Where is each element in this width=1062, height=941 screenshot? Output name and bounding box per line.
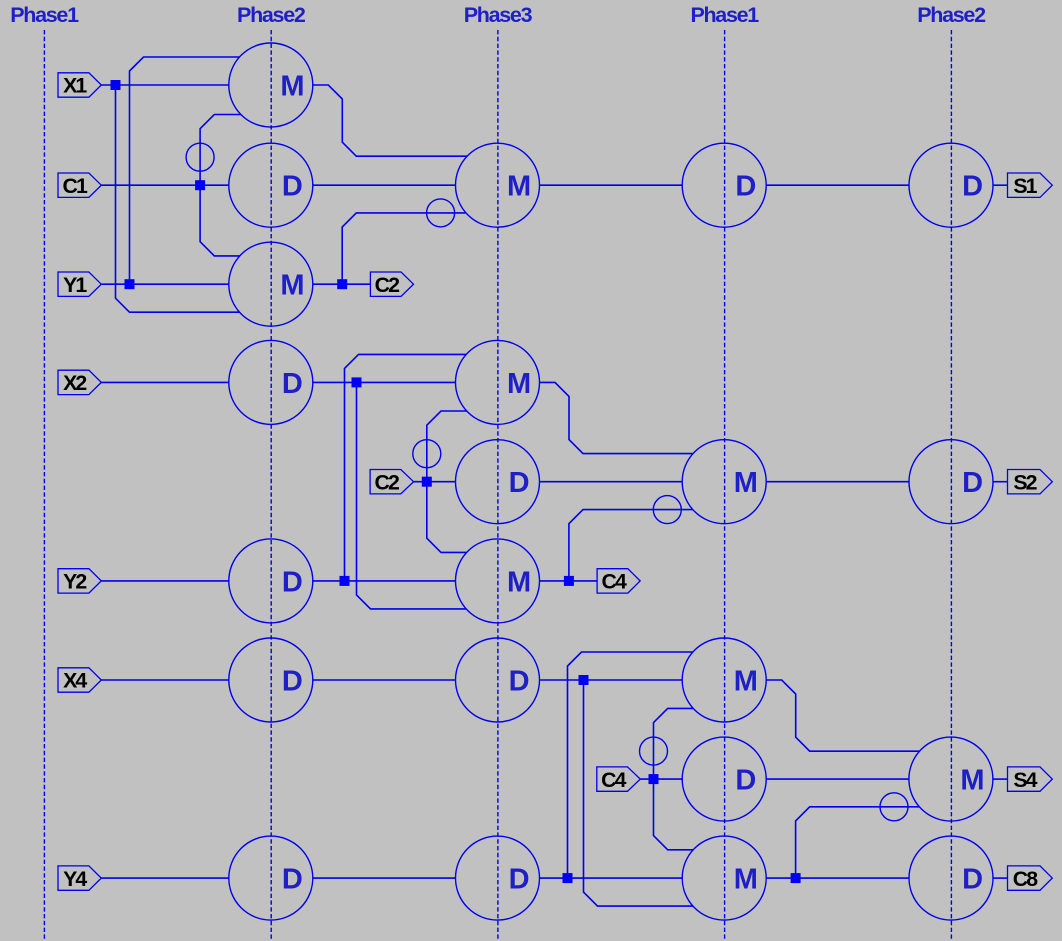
svg-text:D: D	[962, 864, 983, 896]
svg-text:S1: S1	[1013, 174, 1037, 198]
svg-text:Y4: Y4	[63, 867, 87, 891]
svg-text:C4: C4	[601, 768, 626, 792]
svg-text:D: D	[282, 665, 303, 697]
svg-text:D: D	[962, 467, 983, 499]
svg-text:X4: X4	[63, 669, 87, 693]
svg-text:D: D	[962, 171, 983, 203]
svg-text:X1: X1	[63, 74, 87, 98]
svg-text:M: M	[280, 70, 304, 102]
svg-text:C1: C1	[62, 174, 87, 198]
svg-text:C2: C2	[375, 273, 399, 297]
svg-text:M: M	[734, 864, 758, 896]
svg-text:D: D	[509, 467, 530, 499]
svg-text:M: M	[734, 665, 758, 697]
svg-text:M: M	[507, 368, 531, 400]
svg-text:C2: C2	[374, 470, 398, 494]
svg-text:Y2: Y2	[63, 570, 86, 594]
svg-text:M: M	[280, 270, 304, 302]
svg-text:Phase1: Phase1	[10, 3, 79, 27]
svg-text:D: D	[735, 171, 756, 203]
svg-text:D: D	[509, 864, 530, 896]
svg-text:S4: S4	[1013, 768, 1037, 792]
svg-text:D: D	[282, 171, 303, 203]
svg-text:D: D	[282, 566, 303, 598]
svg-text:X2: X2	[63, 371, 86, 395]
svg-text:M: M	[734, 467, 758, 499]
svg-text:C8: C8	[1013, 867, 1038, 891]
svg-text:D: D	[735, 765, 756, 797]
svg-text:Phase2: Phase2	[917, 3, 986, 27]
svg-text:M: M	[960, 765, 984, 797]
svg-text:D: D	[282, 864, 303, 896]
svg-text:M: M	[507, 566, 531, 598]
svg-text:C4: C4	[601, 570, 626, 594]
svg-text:Phase2: Phase2	[237, 3, 306, 27]
svg-text:M: M	[507, 171, 531, 203]
svg-text:D: D	[509, 665, 530, 697]
svg-text:Phase3: Phase3	[464, 3, 533, 27]
svg-text:Y1: Y1	[63, 273, 87, 297]
svg-text:D: D	[282, 368, 303, 400]
svg-text:S2: S2	[1013, 470, 1036, 494]
svg-text:Phase1: Phase1	[690, 3, 759, 27]
